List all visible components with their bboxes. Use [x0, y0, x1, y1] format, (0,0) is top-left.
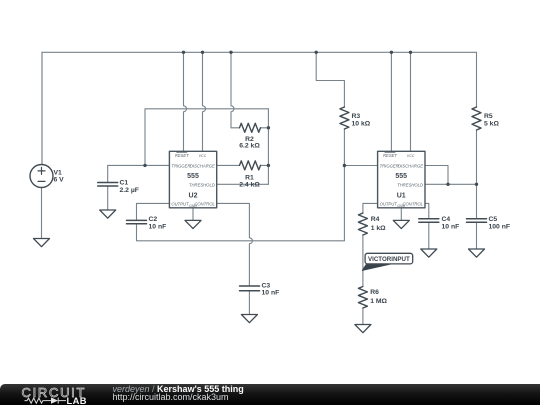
svg-text:DISCHARGE: DISCHARGE — [398, 163, 423, 168]
svg-text:C4: C4 — [442, 216, 451, 223]
svg-text:555: 555 — [187, 173, 199, 180]
ground (below C4) — [421, 249, 437, 257]
wire: U2 output to C2 — [137, 203, 170, 220]
svg-text:1 kΩ: 1 kΩ — [371, 225, 386, 232]
svg-text:5 kΩ: 5 kΩ — [484, 120, 499, 127]
ground (below R6) — [355, 325, 371, 333]
resistor R5 — [472, 107, 481, 130]
footer CircuitLab bar — [0, 384, 540, 405]
capacitor C3 — [240, 286, 260, 291]
wire: U1 VCC vertical from rail — [410, 52, 412, 151]
svg-text:C2: C2 — [149, 216, 158, 223]
wire: U2 control to C3 (hop over bottom route) — [217, 203, 253, 286]
capacitor C5 — [467, 219, 487, 222]
svg-text:6 V: 6 V — [54, 177, 65, 184]
op-amp/timer U1 (555) — [378, 151, 425, 208]
wire: C3 bottom lead to ground — [248, 291, 250, 315]
svg-text:VCC: VCC — [199, 154, 207, 158]
wire: U1 threshold line to R5/C5 column — [425, 183, 477, 185]
svg-text:RESET: RESET — [383, 153, 397, 158]
wire: U2 gnd pin stub — [192, 208, 194, 221]
wire: U1 control to C4 — [425, 203, 429, 218]
svg-text:THRESHOLD: THRESHOLD — [397, 182, 423, 187]
ground (below C3) — [241, 315, 257, 323]
svg-text:CONTROL: CONTROL — [194, 201, 215, 206]
svg-text:DISCHARGE: DISCHARGE — [190, 163, 215, 168]
resistor R1 — [240, 161, 261, 170]
svg-text:TRIGGER: TRIGGER — [380, 163, 399, 168]
svg-text:OUTPUT: OUTPUT — [171, 201, 189, 206]
svg-text:2.4 kΩ: 2.4 kΩ — [239, 182, 260, 189]
wire: C4 bottom lead to ground — [428, 222, 430, 249]
wire: feedback line U2 trigger to threshold column — [145, 109, 268, 166]
wire: top power rail — [42, 52, 477, 164]
wire: R3 bottom to U1 trigger and bottom route — [343, 129, 345, 241]
svg-text:C1: C1 — [120, 179, 129, 186]
resistor R4 — [358, 213, 367, 235]
wire: C5 bottom lead to ground — [476, 222, 478, 249]
wire: U2 RESET vertical from rail (hop over feedback line) — [184, 52, 187, 151]
resistor R6 — [358, 287, 367, 309]
wire: R6 bottom to ground — [362, 308, 364, 325]
capacitor C2 — [127, 220, 147, 223]
svg-text:RESET: RESET — [175, 153, 189, 158]
svg-text:10 nF: 10 nF — [262, 290, 280, 297]
svg-text:http://circuitlab.com/ckak3um: http://circuitlab.com/ckak3um — [113, 392, 229, 402]
svg-text:V1: V1 — [54, 169, 63, 176]
capacitor C4 — [419, 219, 439, 222]
op-amp/timer U2 (555) — [169, 151, 216, 208]
wire: V1 bottom lead to ground — [41, 188, 43, 239]
svg-text:R6: R6 — [370, 289, 379, 296]
svg-text:R5: R5 — [484, 113, 493, 120]
resistor R2 — [240, 123, 261, 132]
wire: V1 top lead — [41, 52, 43, 164]
logo resistor+diode — [25, 398, 67, 404]
wire: R4 bottom to victorinput node and R6 — [362, 235, 364, 287]
wire: U1 trigger line — [344, 165, 377, 167]
wire: C1 top lead from trigger line — [107, 165, 109, 182]
svg-text:THRESHOLD: THRESHOLD — [189, 182, 215, 187]
wire: U1 gnd pin stub — [400, 208, 402, 221]
wire: C2 bottom to R3 column (bottom route) — [137, 224, 345, 241]
voltage source V1 — [30, 165, 53, 188]
svg-text:10 nF: 10 nF — [442, 223, 460, 230]
ground (below C5) — [469, 249, 485, 257]
wire: U2 VCC vertical from rail (hop over feedback line) — [203, 52, 206, 151]
svg-text:R4: R4 — [371, 216, 380, 223]
svg-text:U2: U2 — [189, 193, 198, 200]
ground (U2 GND pin) — [185, 220, 201, 228]
svg-text:VICTORINPUT: VICTORINPUT — [368, 256, 410, 263]
wire: C1 bottom lead to ground — [107, 186, 109, 210]
wire: U2 discharge to R1 — [217, 164, 240, 166]
node VICTORINPUT flag — [362, 264, 393, 271]
svg-text:10 nF: 10 nF — [149, 224, 167, 231]
svg-text:10 kΩ: 10 kΩ — [352, 120, 371, 127]
svg-text:R3: R3 — [352, 113, 361, 120]
capacitor C1 — [98, 183, 118, 187]
resistor R3 — [340, 107, 349, 129]
wire: U1 output to R4 — [363, 203, 378, 213]
svg-text:OUTPUT: OUTPUT — [380, 201, 398, 206]
wire: R2/R1 right column down to U2 threshold — [267, 109, 269, 185]
ground (below V1) — [34, 239, 50, 247]
svg-text:1 MΩ: 1 MΩ — [370, 298, 387, 305]
wire: R2 leads — [231, 127, 240, 129]
svg-text:LAB: LAB — [67, 396, 87, 405]
svg-text:555: 555 — [395, 173, 407, 180]
svg-text:6.2 kΩ: 6.2 kΩ — [239, 142, 260, 149]
wire: U2 trigger line from C1 to chip — [108, 164, 170, 166]
svg-text:C3: C3 — [262, 282, 271, 289]
wire: R3 branch from rail — [316, 52, 344, 107]
wire: U2 threshold line — [217, 183, 269, 185]
svg-text:100 nF: 100 nF — [489, 223, 511, 230]
svg-text:CONTROL: CONTROL — [403, 201, 424, 206]
junction dots — [143, 51, 478, 186]
wire: R2 left vertical from rail (hop over feedback line) — [231, 52, 234, 128]
svg-text:U1: U1 — [397, 193, 406, 200]
svg-text:2.2 µF: 2.2 µF — [120, 187, 139, 194]
wire: U1 RESET vertical from rail — [390, 52, 392, 151]
ground (U1 GND pin) — [393, 220, 409, 228]
wire: R5 column from rail — [476, 52, 478, 107]
wire: U1 discharge jog to threshold line — [425, 166, 448, 185]
ground (below C1) — [100, 210, 116, 218]
svg-text:C5: C5 — [489, 216, 498, 223]
svg-text:TRIGGER: TRIGGER — [171, 163, 190, 168]
svg-text:VCC: VCC — [407, 154, 415, 158]
wire: R5 bottom through threshold junction to C5 — [476, 130, 478, 219]
